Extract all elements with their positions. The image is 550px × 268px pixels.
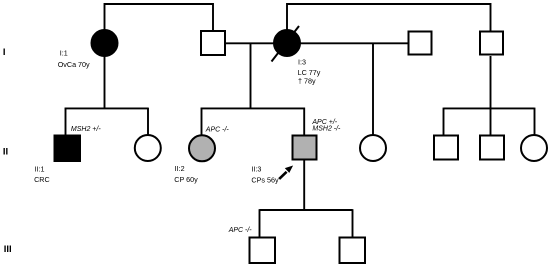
svg-text:I:1: I:1	[60, 49, 68, 58]
svg-text:II:1: II:1	[35, 165, 45, 174]
individual I:5 male (open square)	[480, 32, 503, 55]
wire: marriage line I:3 to I:4	[300, 42, 408, 44]
wire: drop to II:1	[65, 108, 67, 135]
wire: generation III sibship bar	[260, 209, 353, 211]
individual I:4 male (open square)	[409, 32, 432, 55]
svg-text:MSH2 +/-: MSH2 +/-	[71, 126, 101, 133]
wire: descent I:5 to right sibship bar	[490, 56, 492, 108]
svg-text:CP 60y: CP 60y	[174, 175, 198, 184]
wire: couple bar I:1 to I:2	[105, 4, 214, 30]
wire: marriage line I:2 to I:3	[226, 42, 274, 44]
svg-text:II: II	[3, 147, 8, 158]
individual III:1 male (open square)	[250, 238, 276, 264]
svg-text:II:3: II:3	[251, 165, 261, 174]
svg-text:CRC: CRC	[34, 175, 50, 184]
individual II:1 affected male (filled square)	[55, 136, 81, 162]
svg-text:† 78y: † 78y	[298, 76, 316, 85]
wire: drop to II:1 sister circle	[147, 108, 149, 135]
individual II right circle child 3 (open circle)	[521, 135, 547, 161]
wire: descent II:3 to generation III sibship bar	[303, 161, 305, 211]
individual I:1 affected female (filled circle)	[92, 30, 118, 56]
wire: drop to right square child 1	[443, 108, 445, 135]
individual I:3 affected female deceased (filled circle)	[274, 30, 300, 56]
wire: drop to right circle child 3	[534, 108, 536, 135]
wire: drop to II:2	[201, 108, 203, 135]
wire: right sibship bar generation II	[444, 107, 535, 109]
svg-text:III: III	[4, 244, 12, 255]
wire: drop to right square child 2	[490, 108, 492, 135]
deceased slash through I:3	[272, 26, 300, 62]
proband arrow pointing to II:3	[279, 166, 293, 179]
wire: drop to III:1	[259, 209, 261, 237]
svg-text:MSH2 -/-: MSH2 -/-	[312, 126, 341, 133]
svg-text:CPs 56y: CPs 56y	[251, 175, 279, 184]
individual II right square child 1 (open square)	[434, 136, 458, 160]
svg-text:II:2: II:2	[175, 164, 185, 173]
individual II right square child 2 (open square)	[480, 136, 504, 160]
individual II:3 proband male (grey square)	[293, 136, 317, 160]
individual II:2 carrier female (grey circle)	[189, 135, 215, 161]
individual III:2 male (open square)	[340, 238, 366, 264]
wire: couple bar I:3 to I:5	[287, 4, 491, 31]
wire: descent marriage I:3xI:4 to II:4 circle	[372, 43, 374, 135]
svg-text:APC -/-: APC -/-	[228, 227, 253, 234]
individual I:2 male (open square)	[201, 31, 225, 55]
svg-text:OvCa 70y: OvCa 70y	[58, 60, 90, 69]
individual II:4 female (open circle)	[360, 135, 386, 161]
svg-text:I: I	[3, 47, 6, 58]
individual II sibling female (open circle)	[135, 135, 161, 161]
svg-text:APC -/-: APC -/-	[205, 127, 230, 134]
wire: drop to II:3	[303, 108, 305, 135]
svg-text:I:3: I:3	[298, 57, 306, 66]
wire: middle sibship bar generation II	[201, 107, 305, 109]
wire: descent marriage I:2xI:3 to middle sibship bar	[250, 43, 252, 108]
wire: left sibship bar generation II	[65, 107, 148, 109]
wire: descent I:1 to left sibship bar	[104, 56, 106, 108]
wire: drop to III:2	[352, 209, 354, 237]
